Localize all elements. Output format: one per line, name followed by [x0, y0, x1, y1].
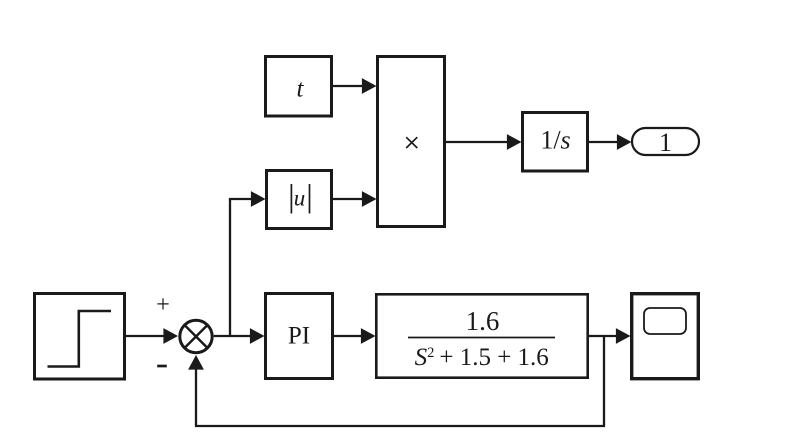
wire PI to transfer fcn: [332, 328, 376, 344]
step source block: [35, 294, 125, 380]
wire integrator to out port: [588, 134, 632, 150]
minus label: [157, 365, 167, 368]
wire t to product: [331, 78, 377, 94]
svg-text:+: +: [156, 292, 170, 318]
svg-text:1: 1: [659, 128, 672, 157]
sum junction: [180, 320, 212, 352]
svg-text:PI: PI: [288, 323, 310, 350]
scope block: [632, 294, 699, 379]
wire branch up to abs: [230, 191, 266, 336]
wire sum to PI: [214, 328, 265, 344]
svg-text:1.6: 1.6: [466, 306, 500, 336]
svg-text:t: t: [297, 76, 305, 103]
wire abs to product: [331, 191, 377, 207]
abs block: [267, 171, 332, 229]
svg-text:u: u: [294, 186, 306, 211]
wire product to integrator: [444, 134, 522, 150]
svg-text:S2 + 1.5 + 1.6: S2 + 1.5 + 1.6: [415, 344, 549, 371]
t block: [266, 57, 332, 117]
product block: [378, 57, 445, 227]
transfer function block: [376, 294, 587, 377]
output port oval 1: [632, 128, 699, 157]
PI block: [266, 294, 333, 379]
feedback wire: [188, 336, 604, 426]
integrator block 1/s: [523, 113, 588, 172]
svg-text:1/s: 1/s: [540, 126, 570, 155]
wire step to sum: [125, 328, 178, 344]
wire transfer fcn to scope: [588, 328, 631, 344]
